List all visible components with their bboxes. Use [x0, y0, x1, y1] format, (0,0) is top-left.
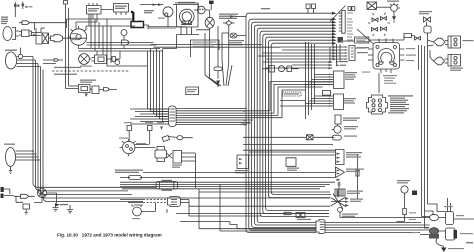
alternator brushes — [182, 21, 185, 24]
cluster lamp 3 — [372, 28, 378, 32]
wires TCS — [222, 20, 229, 34]
stop light switch box — [446, 212, 454, 225]
ground label smear — [150, 28, 176, 29]
right verticals bend — [422, 204, 446, 231]
junction arrows on bundle — [244, 110, 247, 126]
lamp symbol — [424, 17, 431, 26]
bottom contacts — [379, 62, 395, 64]
plug title — [388, 95, 413, 96]
wires regulator — [182, 153, 196, 188]
arrow under speedo — [85, 94, 88, 98]
harness corner 8 — [266, 37, 332, 210]
parking lamp LF — [5, 52, 16, 69]
small chain dots — [338, 182, 341, 190]
turn signal box — [335, 189, 345, 196]
headlamp LH lower — [6, 148, 16, 167]
lower bundle into column — [249, 152, 336, 155]
backup lamp cluster — [37, 188, 46, 197]
horn relay small circle — [115, 60, 120, 65]
emergency flasher box — [237, 155, 249, 169]
TCS solenoid diamond — [223, 21, 235, 26]
angled cylinder — [162, 136, 170, 142]
parking lamp riser — [20, 48, 22, 55]
steering to plug wire — [378, 73, 380, 93]
corner screws — [376, 46, 379, 49]
dashed wires into capsule — [143, 199, 168, 201]
headlamp lower label — [4, 144, 15, 145]
accessory capsule — [356, 170, 359, 176]
harness corner 9 — [268, 40, 332, 198]
headlamp LH label block — [1, 17, 8, 25]
black arrow — [55, 203, 60, 206]
directional signal switch cluster — [331, 190, 346, 209]
voltage regulator box 2 — [173, 151, 182, 164]
flasher triangle — [336, 167, 345, 178]
flasher label — [346, 169, 364, 172]
wiper motor box — [445, 36, 461, 48]
tail wires — [4, 189, 14, 196]
battery ground strap — [144, 25, 151, 29]
cluster lamp 1 — [372, 18, 378, 22]
coil label — [88, 8, 99, 12]
bundle drop verticals — [199, 184, 220, 231]
wiper label — [463, 40, 474, 41]
headlamp LH — [3, 27, 12, 41]
lower dash bundle — [120, 182, 335, 189]
sender bullet capsule — [397, 209, 407, 222]
starter label — [80, 66, 92, 67]
wire alternator to regulator — [175, 3, 210, 13]
harness corner 6 — [260, 31, 332, 216]
tail lamp box RR — [446, 228, 456, 240]
alternator note frame — [191, 40, 220, 57]
stop label — [444, 206, 464, 216]
distributor cap terminals — [68, 26, 87, 48]
alternator label top — [178, 2, 195, 3]
steering column housing — [373, 43, 400, 70]
ignition coil box — [87, 3, 102, 14]
wiper motor oval — [434, 38, 446, 46]
ignition switch box — [367, 2, 377, 10]
engine harness drop verticals — [148, 49, 163, 122]
wires lower headlamp to bundle — [20, 151, 41, 160]
wire from box right — [454, 218, 474, 220]
panel drop verticals — [306, 42, 315, 119]
bottom bus jog — [230, 222, 316, 229]
tail label — [460, 233, 473, 234]
top mounted lamp label — [419, 11, 432, 14]
feed arrows — [329, 74, 332, 107]
license label — [448, 248, 464, 249]
harness corner 5 — [257, 28, 332, 222]
buzzer box with X — [42, 33, 49, 44]
speedo bullet — [104, 88, 117, 92]
battery — [131, 22, 144, 28]
dashed line label upper — [54, 67, 81, 68]
wiper switch box — [336, 150, 345, 165]
dashed divider line — [52, 70, 130, 72]
fuse panel — [339, 10, 345, 33]
tail bullet 2 — [429, 228, 438, 235]
small cap between boxes — [323, 91, 331, 96]
column connector plug — [367, 95, 388, 114]
bullet on feed wire — [284, 212, 293, 214]
small gauge boxes top — [306, 4, 316, 13]
parking lamp label — [5, 50, 17, 51]
cigar label — [344, 126, 358, 129]
engine vertical extensions — [107, 49, 148, 67]
right side verticals down — [419, 45, 428, 217]
small box pair — [348, 7, 355, 11]
steering labels — [355, 41, 416, 76]
top black connector block — [209, 1, 214, 4]
wire buzzer area — [36, 28, 45, 44]
solenoid detail — [98, 57, 104, 62]
wires headlamp to junction — [19, 32, 41, 36]
plug pin list — [388, 98, 409, 114]
inst feed connector arrows — [332, 12, 337, 45]
speedo label — [80, 80, 96, 83]
small box label — [343, 118, 360, 121]
ignition switch body — [349, 46, 355, 61]
harness connector on dash bundle — [156, 182, 178, 190]
spark wires — [67, 19, 136, 29]
junction block small — [296, 213, 305, 218]
wires out right of connector — [325, 212, 430, 232]
key lamp circle — [391, 5, 398, 12]
arrow tag labels — [347, 13, 353, 41]
dark ignition blob — [338, 37, 344, 43]
sender label — [397, 180, 410, 183]
harness corner 4 — [254, 25, 332, 225]
main lower capsule — [168, 197, 181, 207]
washer label — [450, 68, 463, 71]
wire right from label box — [369, 36, 404, 41]
marker lamp connectors — [14, 4, 29, 8]
washer pump oval — [434, 57, 445, 65]
light switch label — [344, 98, 356, 104]
wire to heater box — [217, 85, 219, 87]
battery cable label — [144, 10, 154, 13]
horn ring horseshoe — [378, 48, 394, 62]
small junction box — [23, 204, 30, 214]
ignition switch cluster — [258, 47, 344, 68]
ground arrow lower headlamp — [9, 167, 13, 174]
wiper drop vertical — [205, 26, 229, 78]
horn — [163, 7, 173, 17]
cluster circle — [338, 207, 343, 212]
wire from marker lamp down — [15, 7, 34, 30]
horn label — [158, 18, 165, 19]
alternator ring — [180, 9, 195, 24]
capsule connector h — [129, 176, 142, 180]
top bullets — [127, 126, 132, 137]
radiating terminals — [368, 39, 405, 74]
left-of-corner components: printed circuit arrow — [230, 15, 235, 18]
long feed wires from left — [176, 192, 330, 231]
parking lamp wires to left bundle — [17, 57, 41, 67]
relay box mid — [286, 158, 296, 167]
2-BK wire label — [261, 8, 270, 9]
dist/ignition cluster circle — [123, 141, 135, 153]
oval connector left of corners — [230, 33, 237, 38]
X junction — [167, 153, 173, 158]
engine harness verticals — [91, 14, 111, 51]
lamp feed label — [344, 136, 357, 137]
fuse capsule on wire — [214, 67, 222, 79]
left harness bundle verticals — [33, 57, 330, 202]
cluster lamp 4 — [381, 27, 387, 31]
junction label — [297, 219, 311, 220]
accessory drop wire — [357, 154, 359, 199]
distributor label — [70, 33, 78, 40]
small box on wire — [404, 34, 415, 38]
horn wire down — [148, 17, 186, 27]
fuse block label — [341, 41, 369, 54]
cigar lighter row — [269, 66, 275, 73]
fuel gauge barrel — [155, 147, 167, 162]
parking feed wires right — [43, 60, 63, 64]
alternator label below — [196, 29, 210, 30]
harness corner 10 — [271, 43, 332, 194]
bundle label — [241, 123, 251, 124]
dimmer cylinder connector — [49, 35, 63, 42]
heater blower box — [186, 87, 199, 95]
rear harness connector — [316, 220, 325, 234]
dimmer switch body — [22, 30, 32, 37]
radio note box — [283, 92, 301, 96]
lamp right — [415, 37, 421, 41]
license lamp blob — [441, 248, 447, 252]
headlamp LH bracket — [12, 28, 19, 40]
relay label — [287, 168, 299, 171]
wire bullet2 to box — [420, 228, 446, 235]
wiper switch label box — [355, 37, 369, 43]
wires from capsule — [120, 173, 335, 178]
emergency flasher label — [235, 170, 248, 173]
connection dots — [32, 150, 34, 152]
washer box — [448, 55, 461, 67]
wire top components down — [66, 5, 69, 64]
heater box feed stubs — [280, 75, 333, 107]
dashed line label lower — [54, 74, 77, 75]
horn lower — [133, 207, 142, 216]
oil sender connector — [122, 40, 129, 45]
labels above bullets — [124, 122, 164, 123]
alternator output leads — [163, 27, 199, 49]
ignition resistor box — [114, 4, 129, 16]
wiper switch label — [346, 152, 362, 158]
harness corner 1 — [246, 13, 332, 232]
ground symbol 1 — [53, 205, 59, 211]
lamp drop arrow — [393, 11, 395, 16]
wire down to speedo — [66, 63, 69, 89]
wires cluster verticals — [330, 44, 340, 64]
parking feed bullet — [54, 59, 59, 61]
solenoid side box — [112, 57, 116, 62]
stop switch stub wires — [448, 198, 451, 212]
horn feed wire — [140, 4, 176, 6]
fuel tank sender circle — [401, 186, 408, 193]
bulkhead connector capsule — [169, 106, 177, 127]
bullet connector top edge — [64, 1, 68, 5]
emission label dashed — [115, 170, 143, 174]
arrow below flasher — [337, 179, 341, 182]
resistor label — [115, 6, 127, 10]
wires backup — [34, 193, 68, 205]
bullet below — [424, 26, 431, 40]
heater label — [187, 89, 197, 92]
corner stamp — [466, 242, 473, 243]
plug pins — [372, 99, 375, 102]
wire regulator to field relay — [210, 4, 212, 33]
battery positive cable (thick) — [131, 12, 133, 22]
wire coil to resistor — [89, 10, 114, 27]
funnel merge — [205, 60, 232, 86]
lamp feed wire — [243, 137, 336, 150]
wire tag labels — [409, 212, 418, 233]
diagonal into steering column — [357, 29, 373, 44]
tail lamp left edge — [1, 187, 4, 192]
regulator label — [172, 165, 182, 168]
oil sender bullet — [121, 30, 127, 40]
steering terminal labels — [362, 72, 396, 84]
small box below — [335, 115, 341, 124]
harness corner 2 — [249, 19, 332, 230]
junction arrows — [33, 34, 37, 37]
key lamp label — [387, 1, 399, 2]
cluster lamp 2 — [381, 17, 387, 21]
wires speedo cluster — [66, 86, 104, 90]
wire horn — [141, 203, 155, 212]
black gauge block — [412, 191, 417, 196]
ground symbol 2 — [67, 205, 73, 213]
cigar lighter circle — [334, 126, 341, 133]
regulator small circle — [198, 6, 206, 14]
horn feed bullet connectors — [153, 3, 162, 6]
svg-text:Fig. 10.30 1972 and 1973 mod: Fig. 10.30 1972 and 1973 model wiring di… — [57, 233, 162, 238]
speedometer cable box — [79, 85, 91, 93]
wires ignition cluster — [129, 135, 155, 148]
label block left of corners — [228, 40, 244, 45]
cluster arrows row — [336, 61, 340, 67]
bulkhead wires right side bundle — [176, 82, 333, 125]
harness corner 7 — [263, 34, 332, 213]
black arrow on wire — [216, 81, 220, 86]
harness horizontals into bulkhead — [130, 109, 169, 124]
ignition switch label — [119, 138, 146, 145]
wires out of capsule — [167, 200, 262, 222]
alternator outer box — [177, 5, 199, 28]
wire oil sender — [123, 45, 125, 49]
headlamp connector bullet — [19, 21, 67, 25]
harness corner 3 — [252, 22, 332, 227]
rear bullet connector — [14, 194, 35, 198]
lamp feed capsule — [332, 135, 341, 140]
starter motor — [79, 54, 90, 65]
distributor — [70, 29, 86, 45]
turn box label — [347, 191, 363, 194]
speedo box 2 — [92, 86, 99, 94]
dark connector cluster — [429, 234, 439, 239]
starter solenoid — [92, 51, 107, 64]
bulkhead wires left side — [130, 109, 169, 122]
light switch box — [334, 94, 344, 110]
field relay oval — [205, 17, 214, 28]
TCS label block — [219, 14, 238, 20]
heater switch label — [345, 72, 357, 80]
cluster labels — [342, 199, 363, 217]
antenna diagonal — [330, 6, 346, 22]
parking lamp bulb — [18, 54, 22, 58]
inline fuse box — [307, 135, 314, 140]
engine to panel feed wires — [151, 45, 281, 48]
bullet oval right — [177, 136, 183, 140]
tail bullet 1 — [430, 214, 439, 220]
license lamp hook — [436, 239, 444, 249]
wires starter area — [63, 38, 163, 59]
cluster lamp rays — [368, 13, 390, 36]
speedo inner — [81, 87, 88, 91]
heater switch box — [334, 71, 345, 89]
horn label — [132, 218, 140, 219]
key lamp wire — [377, 6, 391, 8]
